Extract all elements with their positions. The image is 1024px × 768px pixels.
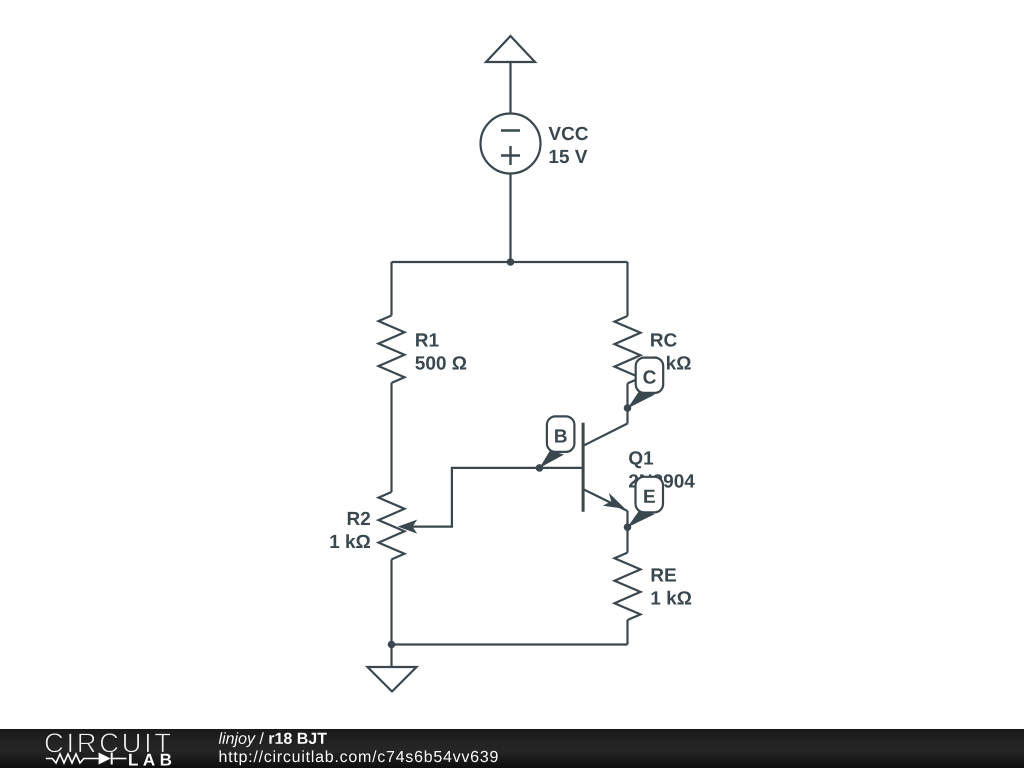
wire: RE bottom to bottom rail [626,620,628,645]
Q1 collector lead [583,424,627,446]
logo wire after diode [113,758,127,760]
logo wordmark CIRCUIT [45,733,170,753]
logo wordmark LAB [129,754,171,766]
label R2 value [330,534,370,548]
node: bottom rail junction [388,641,396,649]
node: emitter probe point [624,523,632,531]
wire: power flag to V1 top [509,62,511,114]
wire: bottom rail [392,643,628,645]
node: top rail junction [507,258,515,266]
label RC value [651,356,691,370]
label Q1 name [629,451,653,468]
ground symbol [368,667,417,692]
node: collector probe point [624,404,632,412]
wire: R1 bottom to R2 top [390,383,392,492]
footer title separator [259,732,264,744]
power flag VCC (up triangle) [486,36,535,62]
probe C tail [628,391,656,409]
wire: emitter to RE [626,511,628,553]
wire: ground stub [390,645,392,668]
wire: RC bottom to collector [626,383,628,423]
probe E tail [628,510,656,527]
probe B bubble [547,416,575,452]
voltage source V1 circle [481,114,541,174]
wire: wiper to base [412,468,583,527]
probe C bubble [636,358,664,393]
potentiometer R2 [379,492,405,559]
logo diode bar [111,753,113,765]
wire: V1 bottom to top rail [509,174,511,263]
footer url [220,750,498,765]
label VCC value [550,150,588,163]
label RE name [652,568,676,581]
label R2 name [348,512,370,525]
resistor RC [615,316,641,383]
logo resistor squiggle [46,754,99,763]
resistor R1 [379,316,405,383]
label R1 name [416,333,439,346]
probe E bubble [636,477,664,513]
footer title name [269,733,326,744]
node: base probe point [536,464,544,472]
wire: R2 bottom to ground node [390,559,392,644]
label Q1 value [629,474,695,488]
label VCC name [549,127,589,141]
probe B tail [540,451,565,469]
transistor Q1 base bar [582,423,585,512]
wire: top rail [392,261,628,263]
Q1 emitter arrow [603,493,626,509]
wire: right branch top [626,262,628,316]
label RE value [652,591,692,605]
label R1 value [415,356,466,370]
label RC name [651,333,677,347]
footer bar [0,729,1024,768]
V1 minus sign [501,129,520,131]
logo diode [99,753,111,765]
footer title author [219,732,256,747]
R2 wiper arrow [398,520,418,534]
V1 plus sign [501,146,520,165]
resistor RE [615,553,641,620]
wire: left branch top [390,262,392,316]
Q1 emitter lead [583,489,627,511]
